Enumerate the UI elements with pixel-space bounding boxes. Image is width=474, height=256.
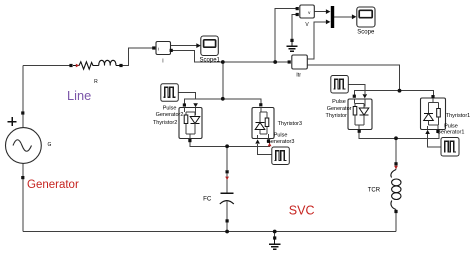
svg-text:Pulse: Pulse — [332, 99, 346, 105]
svg-text:Itr: Itr — [296, 72, 301, 78]
svg-text:Scope1: Scope1 — [200, 58, 221, 64]
svg-text:Pulse: Pulse — [163, 105, 177, 111]
svg-text:Thyristor: Thyristor — [326, 113, 348, 119]
svg-text:Thyristor1: Thyristor1 — [446, 113, 470, 119]
svg-text:Generator3: Generator3 — [267, 139, 295, 145]
svg-text:Scope: Scope — [357, 30, 375, 36]
svg-text:Generator1: Generator1 — [437, 130, 465, 136]
svg-text:Pulse: Pulse — [444, 123, 458, 129]
svg-text:R: R — [94, 79, 98, 85]
svg-text:Thyristor3: Thyristor3 — [278, 121, 302, 127]
svg-text:Generator: Generator — [327, 106, 352, 112]
svg-text:G: G — [48, 142, 52, 148]
svg-text:Generator2: Generator2 — [156, 112, 184, 118]
svg-text:SVC: SVC — [289, 203, 315, 217]
svg-text:Pulse: Pulse — [274, 133, 288, 139]
svg-text:TCR: TCR — [368, 188, 381, 194]
svg-text:FC: FC — [203, 195, 212, 202]
svg-text:Generator: Generator — [27, 179, 79, 191]
svg-text:Thyristor2: Thyristor2 — [153, 120, 177, 126]
svg-text:Line: Line — [67, 88, 91, 103]
svg-text:I: I — [162, 58, 163, 64]
svg-text:i: i — [158, 46, 159, 51]
